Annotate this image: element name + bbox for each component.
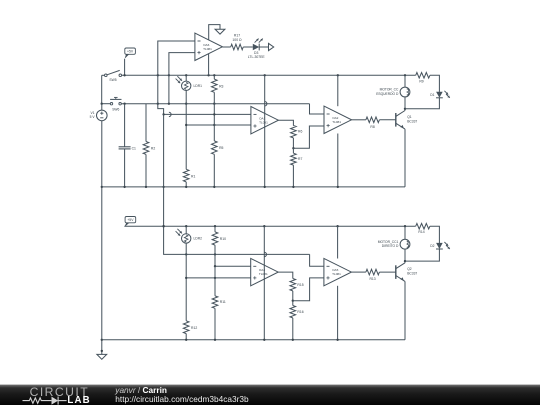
wire V1+ to SW5 left	[101, 75, 103, 103]
wire OA4 supply vertical	[263, 226, 265, 340]
wire +5V row (bottom)	[124, 225, 415, 227]
wire LDR1 node down to R1	[185, 104, 187, 170]
svg-text:R3: R3	[219, 84, 223, 88]
motor MOTOR_CC1 DIREITO	[378, 239, 410, 249]
junction dot R6/R7 node	[292, 147, 294, 149]
resistor R2	[143, 142, 149, 155]
resistor R10	[212, 232, 218, 245]
label R1	[191, 174, 195, 178]
wire OA6 V+ pin to ground	[209, 25, 220, 40]
+5V flag (top)	[125, 48, 136, 59]
wire R7 leads	[292, 148, 294, 153]
wire R17 to D3	[243, 46, 253, 48]
svg-text:100 Ω: 100 Ω	[232, 38, 242, 42]
wire jog to OA1 inverting	[158, 104, 251, 115]
resistor R1	[183, 169, 189, 182]
svg-text:R10: R10	[220, 237, 226, 241]
wire R12 bottom lead	[185, 334, 187, 340]
wire R7 bottom lead	[292, 165, 294, 187]
junction dot OA1- line	[162, 113, 215, 115]
label R14	[418, 230, 424, 234]
resistor R13	[366, 269, 380, 275]
wire D1 cathode to node	[405, 98, 439, 109]
wire R10 top lead	[214, 226, 216, 232]
svg-text:Q2: Q2	[407, 267, 412, 271]
wire motor2 top lead	[404, 226, 406, 239]
wire R13 to Q2 base	[379, 271, 395, 273]
wire vertical to lower half	[164, 114, 310, 254]
wire OA4 output to R15	[278, 272, 293, 278]
photoresistor LDR2	[176, 229, 202, 243]
resistor R7	[291, 153, 297, 165]
svg-text:R2: R2	[151, 146, 155, 150]
transistor Q1	[396, 111, 418, 130]
label R10	[220, 237, 226, 241]
label R12	[191, 326, 197, 330]
svg-text:DIREITO D: DIREITO D	[382, 244, 399, 248]
op-amp OA6	[195, 33, 223, 60]
label 100 Ohm	[232, 38, 242, 42]
junction dots bottom ground rail	[185, 339, 339, 341]
wire D2 cathode to node	[405, 249, 439, 261]
label R2	[151, 146, 155, 150]
wire R15 bottom to node	[292, 291, 294, 301]
svg-text:R9: R9	[419, 79, 423, 83]
svg-text:LDR1: LDR1	[194, 84, 203, 88]
svg-text:TL081: TL081	[259, 120, 268, 124]
wire sensor line to OA5 inverting	[310, 254, 324, 266]
resistor R15	[290, 279, 296, 291]
resistor R12	[183, 321, 189, 334]
wire R5 bottom lead	[213, 154, 215, 187]
footer bar	[0, 385, 540, 405]
junction dots ground rail	[123, 186, 339, 188]
label R13	[369, 277, 375, 281]
junction dot motor2/Q2/D2 node	[404, 260, 406, 262]
switch SW5	[105, 70, 122, 82]
wire R16 top lead	[292, 301, 294, 306]
wire Q1 collector	[404, 109, 406, 111]
svg-text:LDR2: LDR2	[194, 237, 203, 241]
wire ground rail (bottom half)	[102, 339, 405, 341]
CircuitLab logo wordmark CIRCUIT	[30, 385, 90, 399]
wire LDR1 top lead	[185, 75, 187, 81]
resistor R17	[231, 44, 244, 50]
resistor R3	[212, 79, 218, 92]
wire R1 bottom lead	[185, 182, 187, 187]
wire LDR1 bottom lead	[185, 91, 187, 104]
wire OA6 inverting input	[158, 41, 195, 104]
label R9	[419, 79, 423, 83]
wire R14 to D2	[430, 226, 440, 243]
wire C1 bottom lead	[124, 149, 126, 187]
wire OA6 non-inverting input	[169, 53, 195, 104]
wire V1 top pin	[101, 104, 103, 110]
label C1	[132, 147, 136, 151]
wire OA2 output	[352, 119, 366, 121]
wire V1+ node to SW6	[102, 103, 111, 105]
wire ground rail (top half)	[102, 186, 405, 188]
wire hop over OA6+ vertical	[169, 112, 171, 116]
ground symbol (op-amp OA6)	[215, 29, 225, 34]
wire +5V flag drop	[124, 59, 126, 76]
wire R8 to Q1 base	[379, 119, 395, 121]
wire LDR2 top lead	[185, 226, 187, 234]
wire OA2 V+ pin	[337, 75, 339, 106]
wire R3 top lead	[213, 75, 215, 79]
LED D2	[430, 242, 450, 249]
capacitor C1	[119, 147, 131, 149]
wire Q2 emitter to ground rail	[404, 281, 406, 339]
junction dot R10/R11 node	[214, 265, 216, 267]
wire OA4 non-inverting line	[186, 277, 251, 279]
label R17	[234, 34, 240, 38]
wire OA5 V+ pin	[337, 226, 339, 258]
svg-text:SW6: SW6	[112, 108, 119, 112]
svg-text:+5V: +5V	[127, 50, 134, 54]
label R16	[297, 310, 303, 314]
junction dot R15/R16 node	[292, 300, 294, 302]
wire motor2 bottom lead	[404, 249, 406, 261]
wire SW5 left stub	[102, 74, 105, 76]
label R11	[220, 300, 226, 304]
wire R15R16 node to OA5+	[293, 278, 324, 301]
svg-text:D2: D2	[430, 244, 434, 248]
svg-text:LAB: LAB	[67, 395, 90, 405]
svg-text:TL081: TL081	[203, 47, 212, 51]
wire R2 top lead	[145, 104, 147, 142]
wire row to OA2 inverting	[310, 104, 325, 114]
svg-text:5 V: 5 V	[90, 115, 96, 119]
wire R16 bottom lead	[292, 318, 294, 340]
wire OA1 non-inverting line	[186, 124, 251, 126]
wire C1 top lead	[124, 104, 126, 147]
footer byline text	[114, 385, 167, 395]
wire R3 to R5	[213, 92, 215, 141]
LED D1	[430, 91, 450, 98]
junction dots +5V row bottom	[162, 225, 406, 227]
wire R11 bottom lead	[214, 308, 216, 340]
ground symbol (bottom left)	[97, 354, 107, 359]
wire OA2 V- pin	[337, 134, 339, 187]
label R3	[219, 84, 223, 88]
op-amp OA5	[324, 258, 352, 285]
wire OA5 output	[351, 271, 366, 273]
wire switched +5V row	[121, 103, 309, 105]
svg-text:R16: R16	[297, 310, 303, 314]
svg-text:R6: R6	[298, 130, 302, 134]
op-amp OA4	[251, 258, 279, 285]
footer url text	[115, 394, 249, 404]
wire OA6 output	[222, 46, 230, 48]
wire D3 to output flag	[259, 46, 268, 48]
junction dot OA1+ line	[185, 124, 216, 126]
junction dots left vertical	[101, 186, 103, 352]
wire OA1 supply vertical	[264, 75, 266, 187]
wire R10 to OA4 inverting	[215, 245, 251, 266]
svg-text:+5V: +5V	[127, 218, 134, 222]
svg-text:D1: D1	[430, 93, 434, 97]
label R6	[298, 130, 302, 134]
LED D3	[253, 39, 263, 51]
op-amp OA2	[324, 106, 352, 133]
junction dots +5V rail	[123, 74, 406, 76]
junction dots sensor line	[162, 186, 216, 256]
svg-text:Q1: Q1	[407, 115, 412, 119]
svg-text:R7: R7	[298, 157, 302, 161]
svg-text:LTL-307EE: LTL-307EE	[248, 55, 266, 59]
wire LDR2 bottom lead	[185, 243, 187, 254]
wire LDR2 node down to R12	[185, 254, 187, 320]
wire Q1 emitter to ground rail	[404, 129, 406, 187]
wire R2 bottom lead	[145, 154, 147, 187]
resistor R5	[212, 141, 218, 154]
wire hop OA1 supply over row	[265, 102, 267, 106]
svg-text:R8: R8	[370, 125, 374, 129]
label D3	[254, 51, 258, 55]
photoresistor LDR1	[176, 76, 202, 90]
wire +5V rail	[122, 74, 416, 76]
wire R9 to D1	[430, 75, 440, 92]
svg-text:C1: C1	[132, 147, 136, 151]
motor MOTOR_CC ESQUERDO	[376, 87, 410, 97]
label LTL-307EE	[248, 55, 266, 59]
resistor R8	[366, 117, 380, 123]
wire R6 bottom to node	[292, 138, 294, 148]
wire motor1 top lead	[404, 75, 406, 87]
svg-text:TL081: TL081	[259, 272, 268, 276]
junction dot motor1/Q1/D1 node	[404, 108, 406, 110]
svg-text:BC337: BC337	[407, 119, 417, 123]
wire Q2 collector	[404, 261, 406, 263]
svg-text:ESQUERDO D: ESQUERDO D	[376, 92, 399, 96]
svg-text:R15: R15	[297, 283, 303, 287]
transistor Q2	[396, 263, 418, 282]
svg-text:TL081: TL081	[332, 272, 341, 276]
svg-text:R14: R14	[418, 230, 424, 234]
svg-text:http://circuitlab.com/cedm3b4c: http://circuitlab.com/cedm3b4ca3r3b	[115, 394, 249, 404]
+5V flag (bottom)	[124, 217, 135, 228]
label R5	[219, 146, 223, 150]
junction dots switched row	[101, 103, 216, 105]
wire OA5 V- pin	[337, 286, 339, 340]
CircuitLab logo wordmark LAB	[67, 395, 90, 406]
wire hop OA4 supply over sensor line	[264, 252, 266, 256]
resistor R11	[212, 296, 218, 308]
resistor R14	[416, 223, 430, 229]
wire motor1 bottom lead	[404, 97, 406, 109]
wire OA1 output to R6	[278, 120, 293, 125]
voltage source V1	[90, 110, 107, 121]
svg-text:R1: R1	[191, 174, 195, 178]
op-amp OA1	[251, 107, 279, 134]
svg-text:SW5: SW5	[109, 78, 116, 82]
wire V1 minus to ground bus	[101, 121, 103, 355]
pushbutton SW6	[110, 97, 121, 111]
resistor R16	[290, 306, 296, 318]
label R8	[370, 125, 374, 129]
wire R6R7 node to OA2+	[293, 126, 324, 148]
output terminal flag	[269, 43, 274, 50]
svg-text:BC337: BC337	[407, 272, 417, 276]
CircuitLab logo schematic glyph (resistor + diode)	[23, 397, 67, 405]
junction dot OA4+ line	[185, 277, 216, 279]
svg-text:R11: R11	[220, 300, 226, 304]
svg-text:R5: R5	[219, 146, 223, 150]
svg-text:TL081: TL081	[332, 120, 341, 124]
resistor R9	[416, 73, 430, 79]
wire R10 node down to R11	[214, 266, 216, 296]
resistor R6	[291, 126, 297, 138]
label R7	[298, 157, 302, 161]
svg-text:R12: R12	[191, 326, 197, 330]
label R15	[297, 283, 303, 287]
wire OA6 V- pin to rail	[208, 54, 210, 76]
svg-text:R13: R13	[369, 277, 375, 281]
